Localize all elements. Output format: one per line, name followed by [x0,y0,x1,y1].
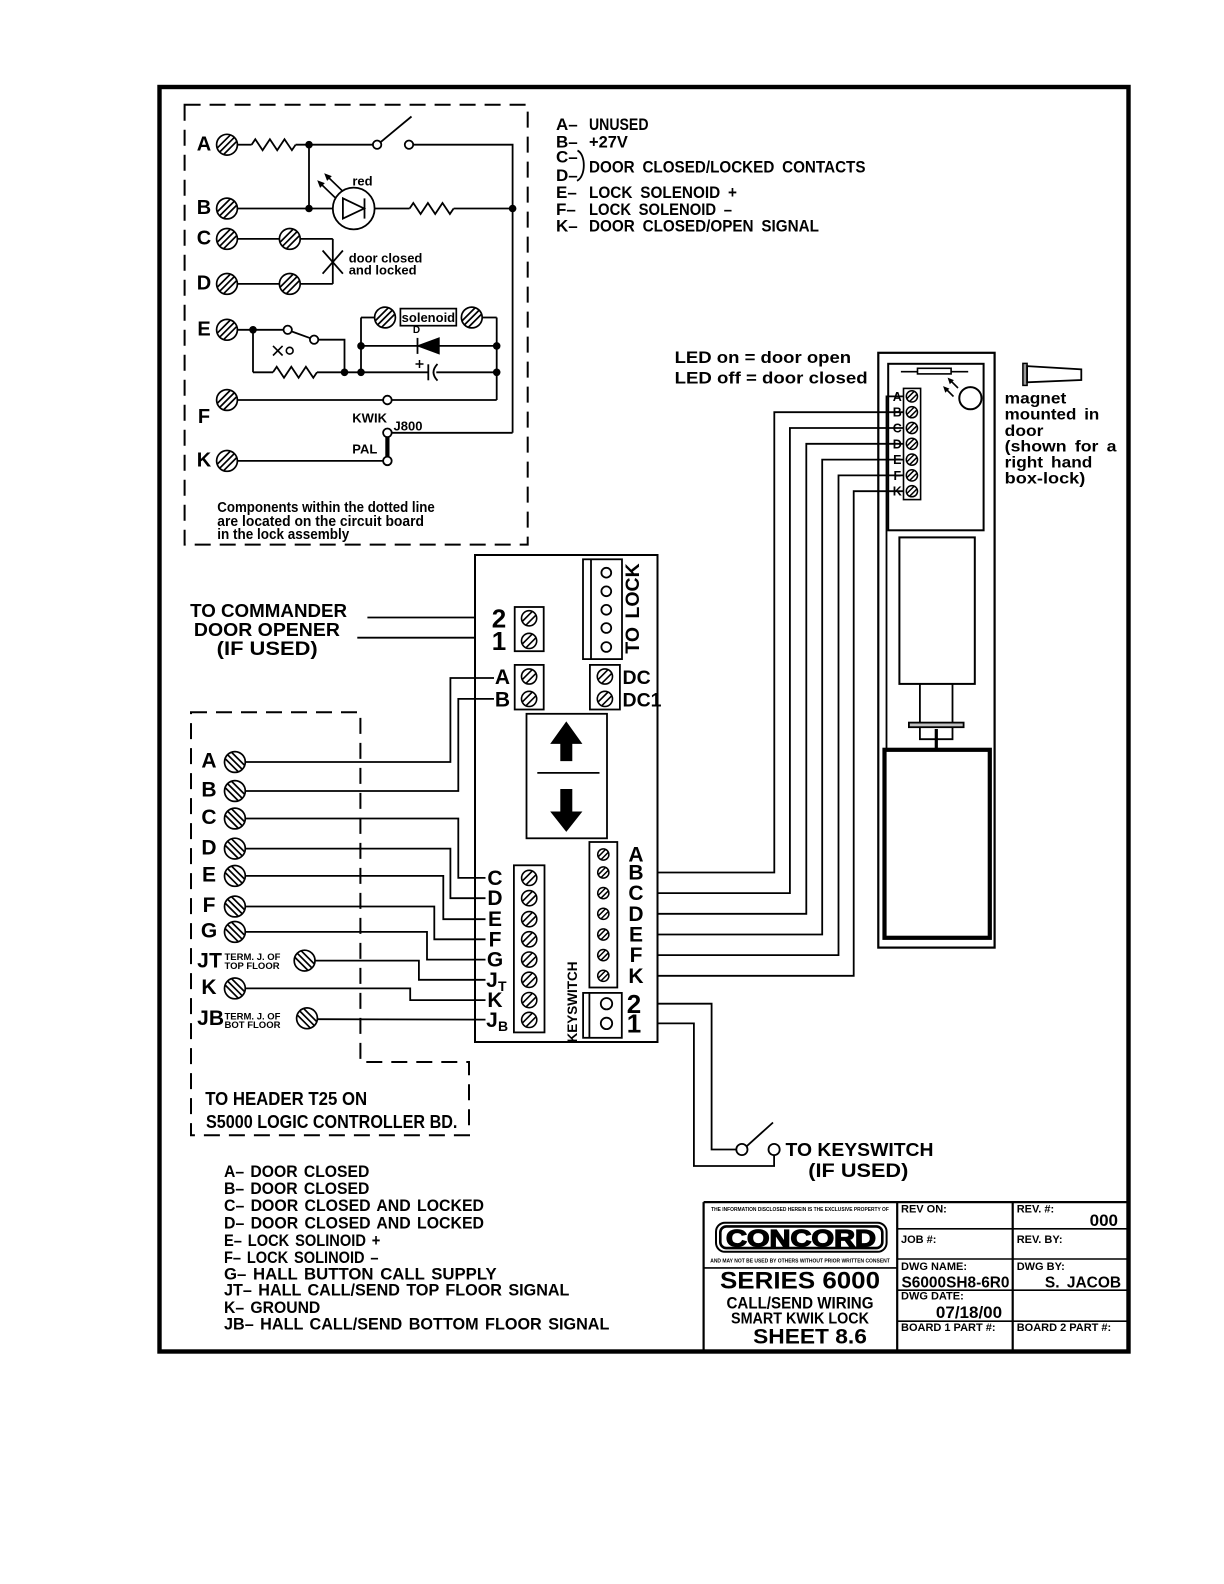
wire K [238,460,384,462]
header terminal B [225,781,246,802]
svg-text:C: C [197,228,211,250]
wire solenoid left [361,317,375,319]
svg-text:C: C [628,882,643,905]
wire cap to right bus [436,371,496,373]
title block [704,1202,1129,1351]
terminal block DC/DC1 [590,665,620,710]
svg-text:A: A [197,133,211,155]
svg-text:K: K [893,485,902,499]
svg-text:BOARD 1 PART #:: BOARD 1 PART #: [901,1322,996,1334]
svg-text:K– GROUND: K– GROUND [224,1299,320,1317]
svg-text:J: J [197,950,209,973]
wire board C to lock [658,428,904,893]
svg-text:JB– HALL CALL/SEND BOTTOM FLO: JB– HALL CALL/SEND BOTTOM FLOOR SIGNAL [224,1316,609,1334]
wire header E [245,876,485,919]
wire A to resistor [238,144,252,146]
svg-text:CALL/SEND WIRING: CALL/SEND WIRING [727,1293,874,1312]
svg-text:G– HALL BUTTON CALL SUPPLY: G– HALL BUTTON CALL SUPPLY [224,1265,497,1283]
svg-text:S5000 LOGIC CONTROLLER BD.: S5000 LOGIC CONTROLLER BD. [206,1112,457,1132]
wire board K to lock [658,491,904,976]
svg-text:JOB #:: JOB #: [901,1234,936,1246]
wire D2 to corner [300,283,333,285]
svg-text:BOARD 2 PART #:: BOARD 2 PART #: [1017,1322,1112,1334]
svg-text:E– LOCK SOLINOID +: E– LOCK SOLINOID + [224,1232,380,1250]
wire LED to resistor [375,208,410,210]
svg-text:solenoid: solenoid [402,310,456,325]
wire C2 to corner [300,238,333,240]
wire E down [252,330,254,373]
solenoid terminal left [375,307,396,328]
header terminal G [225,922,246,943]
terminal E [217,319,238,340]
wire switch to right bus [413,145,512,209]
right terminal strip [589,842,617,988]
wire right bus vertical [512,209,514,433]
wire E [238,329,284,331]
svg-text:KWIK: KWIK [352,411,387,426]
wire C-D vertical [332,239,334,284]
terminal B [217,198,238,219]
LED D1 red [317,173,374,229]
wire J800 to right bus [392,432,513,434]
labels left strip [486,867,503,1032]
divider [537,772,599,774]
svg-text:red: red [352,173,372,188]
header terminal JT [294,950,315,971]
solenoid right vertical [496,318,498,401]
magnet icon [1023,363,1081,385]
lock inner top box [888,364,983,531]
capacitor C1 [428,364,437,381]
svg-text:D: D [201,836,216,859]
svg-text:DOOR CLOSED/LOCKED CONTACTS: DOOR CLOSED/LOCKED CONTACTS [589,157,866,176]
svg-text:CONCORD: CONCORD [726,1225,876,1252]
wire vertical A to B row [308,145,310,209]
junction dot B tap [305,205,313,213]
junction dot right bus B row [509,205,517,213]
svg-text:B: B [893,406,902,420]
svg-text:F: F [630,944,643,967]
TO LOCK connector [583,559,622,659]
terminal D2 [279,274,300,295]
header terminal D [225,838,246,859]
svg-text:DOOR OPENER: DOOR OPENER [194,620,340,640]
svg-text:D: D [487,887,502,910]
svg-text:B: B [197,197,211,219]
svg-text:door: door [1005,423,1044,440]
svg-text:D: D [893,437,902,451]
svg-text:and locked: and locked [349,263,417,278]
svg-text:(shown for a: (shown for a [1005,438,1117,455]
svg-text:TOP FLOOR: TOP FLOOR [225,961,280,972]
arrows to reed [943,378,958,397]
dashed box: to header T25 [191,712,469,1135]
svg-text:B: B [495,688,510,711]
svg-text:J: J [197,1007,209,1030]
solenoid left vertical [360,318,362,373]
wire lock A down [887,396,904,749]
svg-text:T: T [209,950,222,973]
wire resistor to right bus [454,208,513,210]
svg-text:C– DOOR CLOSED AND LOCKED: C– DOOR CLOSED AND LOCKED [224,1197,484,1215]
junction dot A/B tap [305,141,313,149]
svg-text:DC1: DC1 [623,689,662,711]
brace C/D [577,151,584,181]
keyswitch blade [747,1123,773,1147]
lock assembly outer box [878,353,994,948]
wire F left [238,399,384,401]
switch S2 contact right [310,336,318,344]
wire to resistor [253,371,273,373]
jumper J800 [383,429,392,466]
diode D [418,338,440,354]
terminal C2 [279,229,300,250]
terminal A [217,134,238,155]
wire board D to lock [658,444,904,914]
header terminal A [225,752,246,773]
svg-text:000: 000 [1090,1211,1118,1230]
svg-text:REV ON:: REV ON: [901,1204,947,1216]
svg-text:TO COMMANDER: TO COMMANDER [190,601,347,621]
wire resistor to cap row [317,371,428,373]
resistor R-E [273,367,317,378]
svg-text:B: B [628,862,643,885]
wire header JB [318,1018,486,1020]
svg-text:box-lock): box-lock) [1005,471,1086,488]
wire C [238,238,280,240]
plunger [909,684,964,750]
svg-text:F– LOCK SOLINOID –: F– LOCK SOLINOID – [224,1249,379,1267]
lock bolt box [885,750,990,938]
contact X door closed and locked [323,251,343,274]
wire B to LED [238,208,334,210]
svg-text:LED on = door open: LED on = door open [675,348,852,367]
junction dot solenoid left lower [357,369,365,377]
svg-text:in the lock assembly: in the lock assembly [217,527,349,543]
svg-text:F: F [893,469,901,483]
lock terminal strip [904,388,921,499]
svg-text:F: F [203,894,216,917]
svg-text:(IF USED): (IF USED) [808,1160,908,1182]
up/down arrow box [527,714,608,839]
svg-text:S. JACOB: S. JACOB [1045,1275,1121,1292]
terminal block A/B [515,665,544,710]
svg-text:REV. #:: REV. #: [1017,1204,1055,1216]
svg-text:LED off = door closed: LED off = door closed [675,368,868,387]
svg-text:E: E [197,319,210,341]
svg-text:K: K [197,450,212,472]
svg-text:D: D [413,325,420,336]
switch S2 blade [292,331,311,338]
bottom legend [224,1163,609,1334]
svg-text:E: E [202,864,216,887]
labels right strip [628,844,643,988]
svg-text:E: E [893,453,901,467]
label + capacitor [416,360,424,368]
svg-text:PAL: PAL [352,442,377,457]
keyswitch contact right [769,1144,780,1155]
svg-text:REV. BY:: REV. BY: [1017,1234,1063,1246]
svg-text:SERIES 6000: SERIES 6000 [720,1267,880,1294]
svg-text:mounted in: mounted in [1005,406,1100,423]
svg-text:D: D [197,273,211,295]
switch S2 contact left [284,326,292,334]
svg-text:G: G [201,920,217,943]
svg-text:B: B [201,779,216,802]
nc contact marker x-o [273,346,293,356]
legend pin functions [556,115,866,236]
wire header G [245,932,485,960]
header terminal F [225,896,246,917]
wire resistor to switch [296,144,373,146]
wire header JT [315,961,486,980]
svg-text:DOOR CLOSED/OPEN SIGNAL: DOOR CLOSED/OPEN SIGNAL [589,217,819,236]
dashed box: lock assembly circuit board [185,105,528,545]
wire header A [245,678,494,762]
svg-text:BOT FLOOR: BOT FLOOR [225,1020,281,1031]
main controller board [475,555,658,1042]
wire solenoid right [482,317,496,319]
svg-text:D: D [628,903,643,926]
wire switch to lower branch [318,340,344,373]
left terminal strip [514,865,545,1032]
svg-text:DWG DATE:: DWG DATE: [901,1291,964,1303]
svg-text:E: E [629,924,643,947]
svg-text:K: K [628,965,643,988]
header terminal K [225,978,246,999]
solenoid label box [400,309,456,326]
svg-text:A– DOOR CLOSED: A– DOOR CLOSED [224,1163,369,1181]
svg-text:C: C [893,422,902,436]
wire keyswitch 1 [658,1023,774,1166]
wire commander 2 [367,617,475,619]
svg-text:F: F [198,406,210,428]
terminal K [217,451,238,472]
terminal F [217,390,238,411]
header terminal JB [297,1008,318,1029]
svg-text:T: T [498,978,507,994]
svg-text:magnet: magnet [1005,390,1067,407]
svg-text:1: 1 [627,1009,641,1039]
svg-text:THE INFORMATION DISCLOSED HERE: THE INFORMATION DISCLOSED HEREIN IS THE … [711,1207,889,1213]
magnet circle in door [959,387,981,409]
note magnet mounted in door [1005,390,1117,487]
svg-text:07/18/00: 07/18/00 [936,1303,1002,1322]
svg-text:DWG NAME:: DWG NAME: [901,1261,967,1273]
keyswitch contact left [736,1144,747,1155]
wire header B [245,699,494,791]
KEYSWITCH block [583,993,622,1038]
svg-text:B: B [209,1007,224,1030]
CONCORD logo [716,1223,887,1253]
up arrow [550,721,582,761]
header terminal E [225,866,246,887]
svg-text:J800: J800 [394,419,423,434]
svg-text:1: 1 [492,626,506,656]
switch S1 contact left [373,141,381,149]
svg-text:+27V: +27V [589,132,628,151]
wire keyswitch 2 [658,1004,736,1150]
junction dot switch branch [341,369,349,377]
wire F right [392,399,497,401]
svg-text:DC: DC [623,667,651,689]
wire header K [245,988,485,1000]
switch S1 contact right [405,141,413,149]
header terminal C [225,808,246,829]
svg-text:JT– HALL CALL/SEND TOP FLOOR: JT– HALL CALL/SEND TOP FLOOR SIGNAL [224,1282,569,1300]
svg-text:right hand: right hand [1005,454,1093,471]
wire header D [245,849,485,899]
terminal C [217,229,238,250]
svg-text:TO KEYSWITCH: TO KEYSWITCH [786,1140,934,1160]
labels lock strip [893,390,902,499]
diode row wire [361,345,497,347]
svg-text:K: K [201,976,216,999]
svg-text:C: C [201,806,216,829]
switch S1 blade [381,117,412,143]
lock solenoid body [899,537,974,684]
svg-text:B– DOOR CLOSED: B– DOOR CLOSED [224,1180,369,1198]
wire commander 1 [357,637,475,639]
svg-text:A: A [495,666,510,689]
svg-text:A: A [201,750,216,773]
wire board F to lock [658,475,904,955]
junction dot E [249,326,257,334]
wire board E to lock [658,460,904,935]
svg-text:TO HEADER T25 ON: TO HEADER T25 ON [205,1089,367,1109]
down arrow [550,789,582,832]
resistor R-A [252,139,296,150]
wire D [238,283,280,285]
drawing border frame [160,87,1129,1352]
KWIK contact circle [383,396,392,405]
solenoid terminal right [461,307,482,328]
svg-text:KEYSWITCH: KEYSWITCH [565,962,580,1043]
svg-text:(IF USED): (IF USED) [217,638,318,660]
junction dot right diode [493,342,501,350]
svg-text:TO LOCK: TO LOCK [622,563,644,653]
svg-text:D– DOOR CLOSED AND LOCKED: D– DOOR CLOSED AND LOCKED [224,1214,484,1232]
wire header C [245,819,485,878]
wire header F [245,907,485,940]
svg-text:SHEET 8.6: SHEET 8.6 [753,1326,867,1349]
junction dot solenoid left diode [357,342,365,350]
junction dot right cap [493,369,501,377]
svg-text:K–: K– [556,217,578,236]
svg-text:C–: C– [556,148,578,167]
svg-text:AND MAY NOT BE USED BY OTHERS: AND MAY NOT BE USED BY OTHERS WITHOUT PR… [710,1259,890,1265]
svg-text:S6000SH8-6R0: S6000SH8-6R0 [902,1275,1010,1292]
commander terminal block 2/1 [515,607,544,651]
svg-text:DWG BY:: DWG BY: [1017,1261,1065,1273]
resistor R-B [410,203,454,214]
wire board B to lock [658,412,904,872]
svg-text:B: B [498,1018,508,1034]
terminal D [217,274,238,295]
svg-text:J: J [486,1009,498,1032]
reed switch [901,368,968,374]
title block fields [901,1204,1111,1335]
